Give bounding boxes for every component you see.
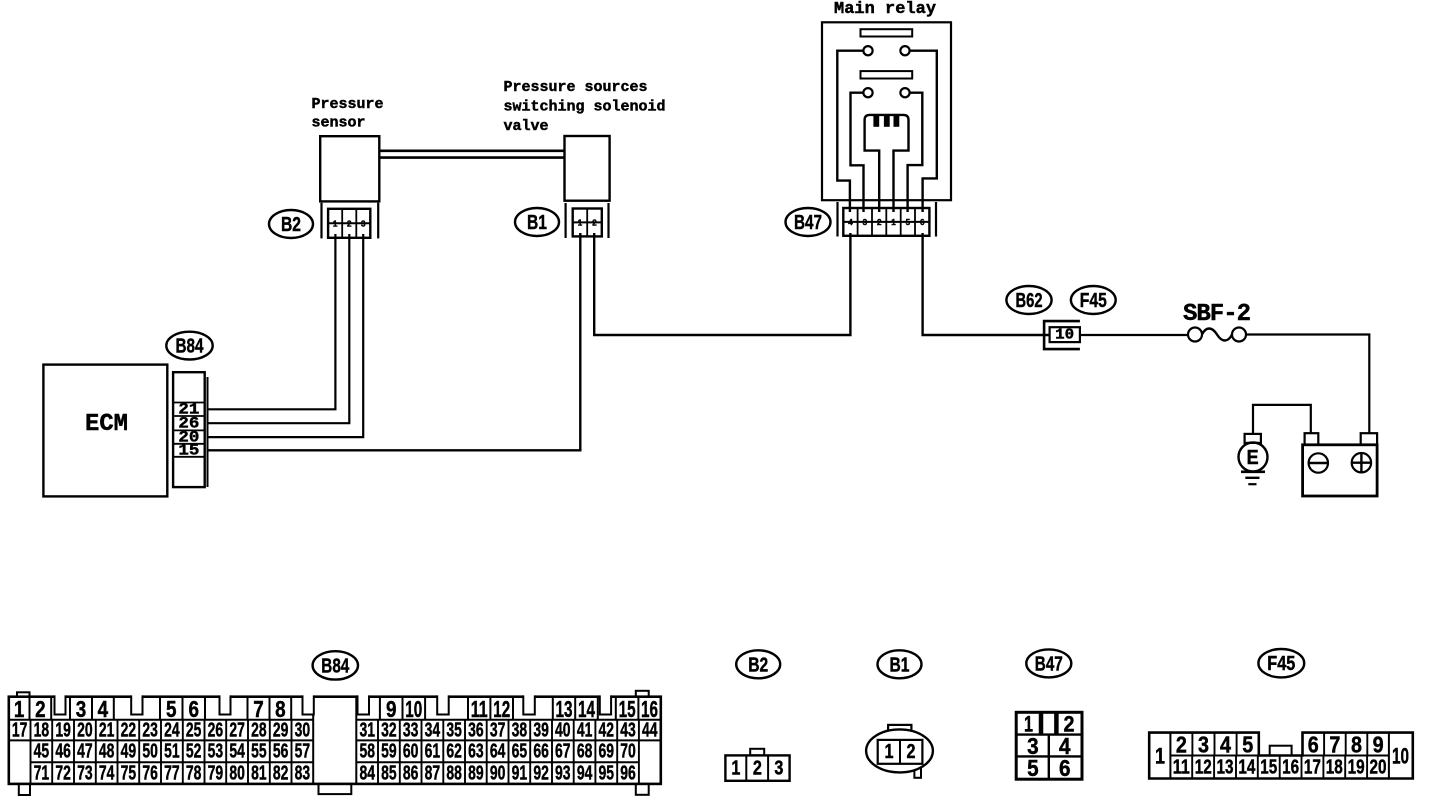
B2 pinout label <box>736 650 780 678</box>
svg-text:20: 20 <box>1370 756 1387 778</box>
ground E terminal <box>1245 434 1261 443</box>
svg-text:60: 60 <box>403 741 419 763</box>
svg-text:3: 3 <box>774 757 783 779</box>
svg-text:6: 6 <box>920 217 925 227</box>
svg-text:32: 32 <box>381 719 397 741</box>
svg-text:92: 92 <box>533 762 549 784</box>
svg-text:77: 77 <box>164 762 180 784</box>
B62 label <box>1006 286 1051 314</box>
svg-text:80: 80 <box>229 762 245 784</box>
svg-text:87: 87 <box>425 762 441 784</box>
relay contact point 1b <box>900 46 909 55</box>
svg-text:35: 35 <box>446 719 462 741</box>
B84 pinout outer box <box>9 697 661 784</box>
svg-text:93: 93 <box>555 762 571 784</box>
svg-text:5: 5 <box>1242 731 1253 757</box>
svg-text:2: 2 <box>35 696 46 722</box>
svg-text:4: 4 <box>1220 731 1231 757</box>
svg-text:22: 22 <box>121 719 137 741</box>
B84 pinout row1 cell walls <box>30 697 639 720</box>
B84 pinout row2 numbers <box>12 719 658 741</box>
svg-text:ECM: ECM <box>85 411 128 438</box>
svg-text:2: 2 <box>1176 731 1187 757</box>
svg-text:1: 1 <box>578 217 583 227</box>
svg-text:15: 15 <box>619 696 636 722</box>
svg-text:42: 42 <box>599 719 615 741</box>
svg-text:68: 68 <box>577 741 593 763</box>
svg-text:2: 2 <box>592 217 597 227</box>
svg-text:30: 30 <box>295 719 311 741</box>
svg-text:F45: F45 <box>1080 289 1107 312</box>
B84 pinout top edge notches <box>55 694 612 714</box>
B47 pinout label <box>1026 649 1071 677</box>
svg-text:85: 85 <box>381 762 397 784</box>
svg-text:4: 4 <box>848 217 853 227</box>
svg-text:B84: B84 <box>321 654 349 677</box>
svg-text:41: 41 <box>577 719 593 741</box>
svg-text:59: 59 <box>381 741 397 763</box>
svg-text:1: 1 <box>731 757 740 779</box>
label: Pressure sensor <box>312 96 384 132</box>
svg-text:23: 23 <box>142 719 158 741</box>
svg-text:2: 2 <box>877 217 882 227</box>
fusible link SBF-2 <box>1188 328 1246 342</box>
svg-text:19: 19 <box>1348 756 1365 778</box>
svg-text:12: 12 <box>1195 756 1212 778</box>
svg-text:51: 51 <box>164 741 180 763</box>
label: Main relay <box>834 0 936 19</box>
svg-text:15: 15 <box>1260 756 1277 778</box>
svg-text:valve: valve <box>504 118 549 135</box>
B47 pinout box <box>1016 712 1082 779</box>
wire B47 pin6 to fuse <box>923 233 1050 335</box>
svg-text:88: 88 <box>446 762 462 784</box>
svg-text:14: 14 <box>1238 756 1256 778</box>
svg-text:46: 46 <box>55 741 71 763</box>
svg-text:B47: B47 <box>1035 652 1063 675</box>
svg-text:38: 38 <box>512 719 528 741</box>
B84 pinout row4 cells <box>52 762 617 784</box>
svg-text:sensor: sensor <box>312 115 366 132</box>
connector B2 bracket right <box>377 203 379 239</box>
svg-text:94: 94 <box>577 762 593 784</box>
svg-text:9: 9 <box>386 696 397 722</box>
F45 pinout outer box <box>1149 733 1413 779</box>
svg-text:37: 37 <box>490 719 506 741</box>
ground E circle <box>1239 443 1268 472</box>
svg-text:56: 56 <box>273 741 289 763</box>
svg-text:63: 63 <box>468 741 484 763</box>
B84 label <box>166 332 212 360</box>
connector B47 bracket right <box>935 202 937 237</box>
svg-text:48: 48 <box>99 741 115 763</box>
svg-text:3: 3 <box>863 217 868 227</box>
connector B47 bracket left <box>836 202 838 237</box>
svg-text:10: 10 <box>1392 743 1409 768</box>
svg-text:11: 11 <box>471 696 488 722</box>
B1 pinout top tab <box>888 725 911 733</box>
svg-text:8: 8 <box>275 696 286 722</box>
wire ECM pin20 to sensor pin3 <box>208 234 364 437</box>
svg-text:36: 36 <box>468 719 484 741</box>
svg-text:66: 66 <box>533 741 549 763</box>
svg-text:40: 40 <box>555 719 571 741</box>
svg-text:4: 4 <box>98 696 109 722</box>
relay coil <box>865 115 909 212</box>
battery plus symbol <box>1352 453 1371 472</box>
fuse 10 box <box>1050 327 1080 344</box>
relay contact bar 1 <box>861 29 913 36</box>
svg-text:B1: B1 <box>527 211 547 234</box>
B84 pinout row3 numbers <box>34 741 636 763</box>
svg-text:29: 29 <box>273 719 289 741</box>
svg-text:47: 47 <box>77 741 93 763</box>
svg-text:3: 3 <box>1198 731 1209 757</box>
F45 pinout small tab <box>1270 746 1292 756</box>
connector B47 cells <box>843 208 929 236</box>
svg-text:26: 26 <box>208 719 224 741</box>
relay wire contact2b to pin5 <box>908 93 923 212</box>
battery minus symbol <box>1309 453 1328 472</box>
solenoid valve box <box>565 136 610 201</box>
B84 pinout top tabs <box>17 691 649 697</box>
ECM text <box>85 411 128 438</box>
B2 pinout tab <box>750 749 764 756</box>
svg-text:B1: B1 <box>890 653 910 676</box>
F45 pinout label <box>1258 649 1304 677</box>
svg-text:70: 70 <box>620 741 636 763</box>
svg-text:84: 84 <box>359 762 375 784</box>
svg-text:54: 54 <box>229 741 245 763</box>
svg-text:5: 5 <box>906 217 911 227</box>
svg-text:16: 16 <box>1282 756 1299 778</box>
svg-text:21: 21 <box>99 719 115 741</box>
svg-text:B2: B2 <box>281 213 301 236</box>
svg-text:10: 10 <box>405 696 422 722</box>
svg-text:13: 13 <box>556 696 573 722</box>
svg-text:7: 7 <box>253 696 264 722</box>
B2 pinout box <box>725 755 789 780</box>
B1 pinout oval body <box>866 729 933 772</box>
wire ECM pin15 to valve pin1 <box>208 233 581 450</box>
relay contact point 2b <box>900 88 909 97</box>
svg-text:B47: B47 <box>794 211 822 234</box>
svg-text:6: 6 <box>1308 731 1319 757</box>
relay wire contact1b to pin6 <box>910 51 937 212</box>
relay wire contact2a to pin2 <box>851 93 864 212</box>
svg-text:17: 17 <box>1304 756 1321 778</box>
svg-text:20: 20 <box>77 719 93 741</box>
wire ECM pin26 to sensor pin2 <box>208 234 350 423</box>
ground strokes <box>1241 472 1265 484</box>
connector B84 bracket right <box>207 377 209 487</box>
B1 label <box>515 208 559 236</box>
svg-text:11: 11 <box>1173 756 1190 778</box>
B47 pinout numbers <box>1024 711 1075 781</box>
B1 pinout bottom tab <box>914 764 921 778</box>
connector B84 (ECM) cells <box>173 372 205 487</box>
svg-text:83: 83 <box>295 762 311 784</box>
svg-text:switching solenoid: switching solenoid <box>504 99 666 116</box>
svg-text:69: 69 <box>599 741 615 763</box>
svg-text:81: 81 <box>251 762 267 784</box>
label: SBF-2 <box>1183 301 1250 328</box>
svg-text:7: 7 <box>1329 731 1340 757</box>
svg-text:58: 58 <box>359 741 375 763</box>
ECM box <box>43 365 167 497</box>
B84 pinout label <box>313 651 358 679</box>
svg-text:6: 6 <box>189 696 200 722</box>
F45 pinout bottom row cell walls <box>1192 756 1367 779</box>
label: Pressure sources switching solenoid valve <box>504 79 666 135</box>
B84 pinout row lines <box>9 697 661 784</box>
svg-text:Main relay: Main relay <box>834 0 936 19</box>
svg-text:79: 79 <box>208 762 224 784</box>
svg-text:71: 71 <box>34 762 50 784</box>
wire fuse to SBF-2 <box>1080 334 1188 336</box>
F45 pinout cell 10 wall <box>1388 733 1390 779</box>
svg-text:9: 9 <box>1373 731 1384 757</box>
relay contact point 2a <box>863 88 872 97</box>
svg-text:10: 10 <box>1055 327 1074 344</box>
svg-text:28: 28 <box>251 719 267 741</box>
svg-text:1: 1 <box>14 696 25 722</box>
svg-text:24: 24 <box>164 719 180 741</box>
svg-text:2: 2 <box>753 757 762 779</box>
svg-text:18: 18 <box>1326 756 1343 778</box>
connector B1 bracket left <box>564 203 566 238</box>
svg-text:74: 74 <box>99 762 115 784</box>
wire ground E to battery negative <box>1253 405 1311 434</box>
B84 pinout row1 numbers <box>14 696 658 722</box>
svg-text:76: 76 <box>142 762 158 784</box>
svg-text:17: 17 <box>12 719 28 741</box>
svg-text:61: 61 <box>425 741 441 763</box>
svg-text:43: 43 <box>620 719 636 741</box>
battery positive terminal <box>1361 433 1377 445</box>
connector B2 cells <box>328 209 370 238</box>
F45 pinout numbers <box>1155 731 1409 778</box>
svg-text:1: 1 <box>885 741 894 763</box>
svg-text:2: 2 <box>347 218 352 228</box>
B84 pinout bottom tabs <box>19 784 649 795</box>
svg-text:5: 5 <box>166 696 177 722</box>
svg-text:65: 65 <box>512 741 528 763</box>
B47 label <box>786 208 831 236</box>
svg-text:33: 33 <box>403 719 419 741</box>
relay contact bar 2 <box>861 71 913 78</box>
svg-text:B84: B84 <box>176 335 204 358</box>
svg-text:18: 18 <box>34 719 50 741</box>
svg-text:6: 6 <box>1059 755 1071 781</box>
F45 pinout row divider <box>1170 755 1389 757</box>
svg-text:45: 45 <box>34 741 50 763</box>
B2 label <box>269 210 313 238</box>
svg-text:64: 64 <box>490 741 506 763</box>
svg-text:55: 55 <box>251 741 267 763</box>
connector B2 bracket left <box>320 203 322 239</box>
svg-text:96: 96 <box>620 762 636 784</box>
F45 label <box>1071 286 1116 314</box>
svg-text:1: 1 <box>891 217 896 227</box>
svg-text:53: 53 <box>208 741 224 763</box>
svg-text:Pressure sources: Pressure sources <box>504 79 648 96</box>
connector B1 cells <box>573 209 602 237</box>
svg-text:25: 25 <box>186 719 202 741</box>
svg-text:5: 5 <box>1027 755 1039 781</box>
fuse holder bracket <box>1044 321 1080 349</box>
battery negative terminal <box>1305 433 1319 445</box>
svg-text:3: 3 <box>361 218 366 228</box>
B84 pinout row2 cells <box>31 720 639 741</box>
B84 pinout row4 numbers <box>34 762 636 784</box>
svg-text:89: 89 <box>468 762 484 784</box>
svg-text:73: 73 <box>77 762 93 784</box>
svg-text:78: 78 <box>186 762 202 784</box>
svg-text:34: 34 <box>425 719 441 741</box>
svg-text:62: 62 <box>446 741 462 763</box>
svg-text:67: 67 <box>555 741 571 763</box>
svg-text:E: E <box>1247 447 1259 469</box>
svg-text:95: 95 <box>599 762 615 784</box>
B1 pinout cells <box>878 740 923 764</box>
svg-text:14: 14 <box>578 696 595 722</box>
svg-text:SBF-2: SBF-2 <box>1183 301 1250 328</box>
relay contact point 1a <box>863 46 872 55</box>
svg-text:8: 8 <box>1351 731 1362 757</box>
B84 pinout row3 cells <box>31 740 639 784</box>
svg-text:B62: B62 <box>1016 289 1043 312</box>
svg-text:31: 31 <box>359 719 375 741</box>
svg-text:82: 82 <box>273 762 289 784</box>
svg-text:Pressure: Pressure <box>312 96 384 113</box>
svg-text:75: 75 <box>121 762 137 784</box>
svg-text:1: 1 <box>333 218 338 228</box>
pressure sensor box <box>320 136 379 201</box>
F45 pinout cell 1 wall <box>1169 733 1171 779</box>
svg-text:F45: F45 <box>1267 652 1295 675</box>
svg-text:16: 16 <box>641 696 658 722</box>
hose line upper <box>379 150 564 153</box>
wire ECM pin21 to sensor pin1 <box>208 234 336 409</box>
svg-text:13: 13 <box>1217 756 1234 778</box>
svg-text:3: 3 <box>76 696 87 722</box>
svg-text:86: 86 <box>403 762 419 784</box>
svg-text:50: 50 <box>142 741 158 763</box>
hose line lower <box>379 156 564 159</box>
main relay box <box>822 22 951 200</box>
svg-text:91: 91 <box>512 762 528 784</box>
svg-text:B2: B2 <box>748 653 768 676</box>
svg-text:12: 12 <box>493 696 510 722</box>
svg-text:15: 15 <box>178 442 199 460</box>
svg-text:52: 52 <box>186 741 202 763</box>
svg-text:1: 1 <box>1155 743 1165 768</box>
battery box <box>1303 445 1378 496</box>
svg-text:27: 27 <box>229 719 245 741</box>
svg-text:39: 39 <box>533 719 549 741</box>
F45 pinout top row cell walls <box>1192 733 1367 756</box>
svg-text:57: 57 <box>295 741 311 763</box>
svg-text:90: 90 <box>490 762 506 784</box>
relay wire contact1a to pin1 <box>837 51 863 212</box>
B1 pinout label <box>878 650 922 678</box>
svg-text:49: 49 <box>121 741 137 763</box>
svg-text:44: 44 <box>642 719 658 741</box>
wire SBF-2 to battery positive <box>1246 335 1369 434</box>
svg-text:72: 72 <box>55 762 71 784</box>
wire B47 pin1 to solenoid valve B1 pin2 <box>594 233 850 335</box>
svg-text:19: 19 <box>55 719 71 741</box>
connector B1 bracket right <box>607 203 609 238</box>
svg-text:2: 2 <box>907 741 916 763</box>
